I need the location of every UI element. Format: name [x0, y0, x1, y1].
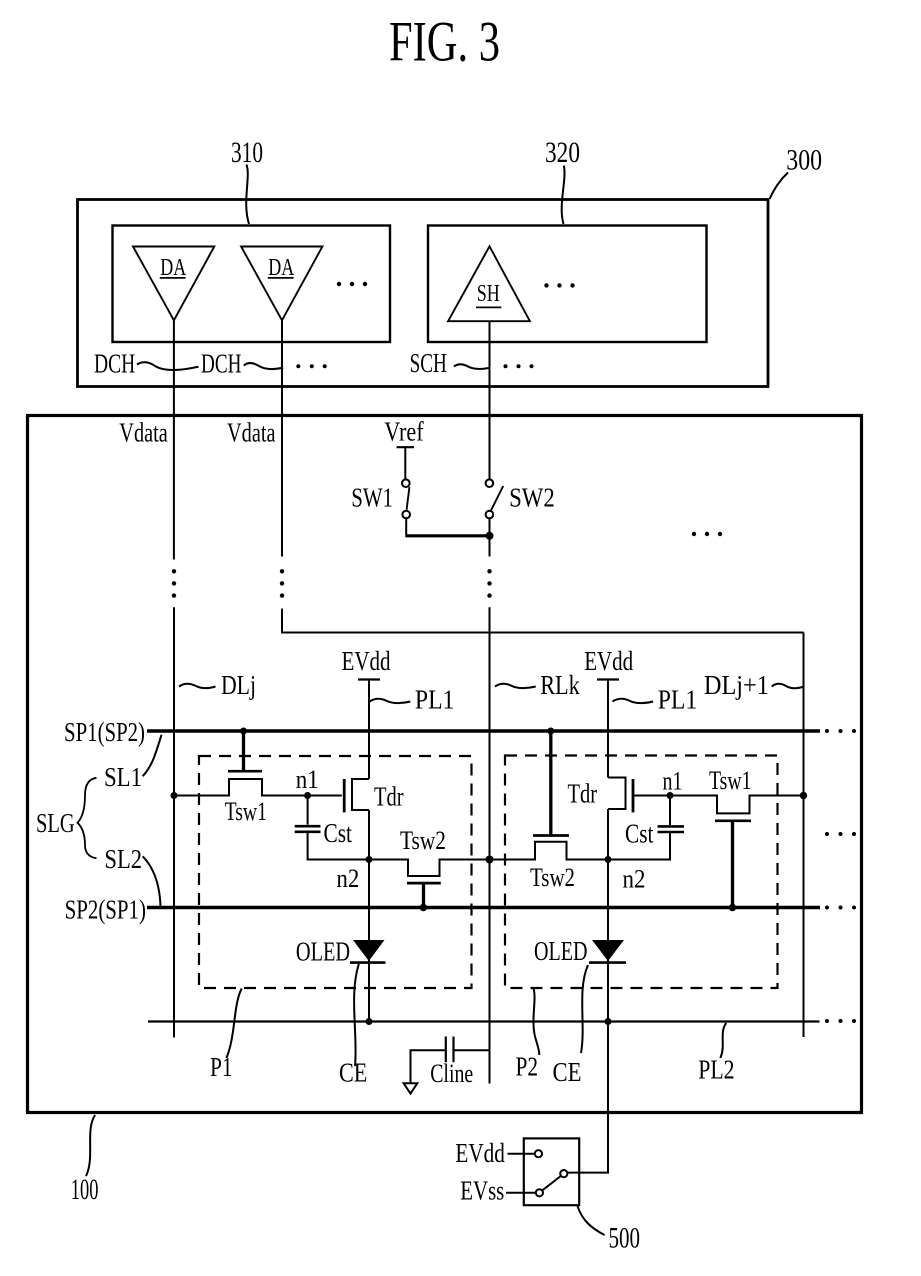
- svg-text:CE: CE: [339, 1057, 367, 1088]
- ground symbol: [404, 1083, 418, 1093]
- svg-text:SL2: SL2: [104, 843, 142, 874]
- svg-text:EVdd: EVdd: [455, 1137, 505, 1168]
- svg-text:Cline: Cline: [430, 1059, 473, 1088]
- svg-text:300: 300: [786, 145, 822, 177]
- svg-text:EVdd: EVdd: [584, 645, 633, 676]
- scan line SP1: [147, 729, 820, 733]
- label 320 with leader: [545, 137, 580, 224]
- svg-text:DA: DA: [160, 254, 186, 281]
- DA converter block 310 box: [113, 226, 391, 343]
- label CE left with leader: [339, 964, 367, 1088]
- svg-text:SP2(SP1): SP2(SP1): [65, 894, 146, 925]
- wire SW junction down: [489, 518, 491, 556]
- Vref terminal: [384, 415, 424, 479]
- svg-text:FIG. 3: FIG. 3: [389, 11, 500, 74]
- vertical ellipsis on Vdata line 1: [172, 569, 176, 598]
- wire PL1 right lower: [607, 809, 609, 1022]
- junction dot PL1 right on CE rail: [605, 1018, 612, 1025]
- wire RLk column: [489, 607, 491, 1083]
- junction dot SW output: [486, 532, 494, 540]
- svg-text:100: 100: [71, 1174, 99, 1206]
- cathode electrode CE rail: [148, 1020, 820, 1022]
- vertical ellipsis on Vdata line 2: [280, 569, 284, 598]
- svg-text:Tdr: Tdr: [374, 781, 404, 812]
- driver block 300 outer box: [78, 200, 769, 387]
- SH amplifier symbol: [448, 246, 530, 321]
- svg-text:RLk: RLk: [540, 669, 580, 700]
- OLED right: [534, 935, 626, 966]
- svg-text:n2: n2: [336, 863, 359, 893]
- svg-text:Vref: Vref: [384, 415, 424, 446]
- label SL1 with leader: [104, 735, 162, 792]
- node n1 left: [296, 764, 319, 799]
- scan line SP2: [147, 906, 820, 910]
- node n2 right: [605, 856, 646, 894]
- junction dot Tsw2 right gate on SP1: [547, 728, 554, 735]
- label SCH with tilde: [410, 347, 489, 378]
- label DCH 1 with tilde: [94, 347, 199, 378]
- transistor Tsw1 right gate: [715, 821, 751, 908]
- svg-text:P2: P2: [516, 1051, 539, 1082]
- label PL2 with leader: [698, 1023, 734, 1085]
- svg-text:n2: n2: [623, 864, 646, 894]
- display panel 100 box: [28, 416, 862, 1113]
- svg-text:EVss: EVss: [460, 1174, 504, 1205]
- svg-text:320: 320: [545, 137, 580, 169]
- label P2 with leader: [516, 989, 540, 1082]
- svg-text:Vdata: Vdata: [119, 416, 168, 447]
- svg-text:Cst: Cst: [324, 817, 353, 848]
- svg-text:Tsw2: Tsw2: [530, 862, 575, 892]
- wire DLj+1 column: [803, 633, 805, 1038]
- wire PL1 left lower: [368, 810, 370, 1022]
- DA amplifier 1 symbol: [133, 247, 214, 321]
- ellipsis dots middle right: [825, 832, 856, 836]
- label 100 with leader: [71, 1115, 99, 1206]
- junction dot Tsw1 right gate on SP2: [729, 904, 736, 911]
- svg-text:SCH: SCH: [410, 347, 447, 378]
- label PL1 right with tilde: [613, 684, 698, 715]
- svg-text:n1: n1: [296, 764, 319, 794]
- EVdd terminal right: [584, 645, 633, 680]
- pixel P2 dashed box: [505, 756, 778, 989]
- transistor Tsw1 left gate: [228, 731, 262, 771]
- SH block 320 box: [428, 226, 707, 343]
- transistor Tsw2 right gate: [533, 731, 569, 836]
- wire DA1 output down: [173, 320, 175, 559]
- ellipsis dots in DA block: [337, 282, 367, 286]
- wire Tdr right gate to n1: [633, 795, 670, 797]
- supply switch 500 box: [524, 1138, 579, 1205]
- svg-text:PL1: PL1: [415, 684, 455, 715]
- svg-text:n1: n1: [663, 766, 683, 796]
- svg-text:SL1: SL1: [104, 761, 142, 792]
- svg-text:DCH: DCH: [94, 347, 135, 378]
- svg-text:EVdd: EVdd: [342, 645, 391, 676]
- label 500 with leader: [578, 1206, 641, 1255]
- svg-text:OLED: OLED: [296, 936, 350, 967]
- junction dot PL1 left on CE rail: [366, 1018, 373, 1025]
- wire horizontal routing to DLj+1: [282, 632, 804, 634]
- junction dot DLj Tsw1 source: [171, 792, 178, 799]
- svg-text:310: 310: [231, 137, 263, 169]
- node n1 right: [663, 766, 683, 800]
- label DLj+1 with tilde: [704, 669, 804, 700]
- ellipsis dots SP1 right: [825, 729, 856, 733]
- junction dot Tsw2 gate on SP2: [420, 904, 427, 911]
- ellipsis dots SCH row: [504, 364, 534, 368]
- DA amplifier 2 symbol: [241, 247, 322, 321]
- svg-text:Vdata: Vdata: [227, 416, 276, 447]
- ellipsis dots SP2 right: [825, 906, 856, 910]
- svg-text:SW1: SW1: [351, 481, 393, 512]
- ellipsis dots mid row: [692, 532, 722, 536]
- svg-text:Tsw1: Tsw1: [709, 765, 752, 795]
- wire DLj column: [173, 607, 175, 1037]
- svg-text:OLED: OLED: [534, 935, 588, 966]
- capacitor Cline: [411, 1037, 490, 1088]
- pixel P1 dashed box: [199, 756, 472, 988]
- transistor Tsw1 left channel: [174, 779, 342, 796]
- brace SLG: [78, 778, 97, 859]
- svg-text:SW2: SW2: [509, 481, 555, 512]
- label 300 with leader: [770, 145, 823, 199]
- svg-text:500: 500: [609, 1223, 641, 1255]
- svg-text:DLj: DLj: [221, 669, 256, 700]
- wire PL1 right to supply switch: [568, 1022, 609, 1173]
- junction dot Tsw2 drain on RLk: [486, 856, 494, 864]
- svg-text:DCH: DCH: [201, 347, 241, 378]
- svg-text:PL1: PL1: [658, 684, 698, 715]
- transistor Tsw2 right channel: [490, 842, 609, 860]
- label PL1 left with tilde: [370, 684, 455, 715]
- transistor Tdr right: [568, 778, 634, 813]
- wire SW1 to junction: [405, 518, 407, 534]
- svg-text:SH: SH: [477, 281, 500, 307]
- OLED left: [296, 936, 386, 967]
- wire SH output down: [489, 321, 491, 479]
- capacitor Cst left: [295, 796, 369, 860]
- EVss terminal of switch 500: [460, 1174, 543, 1205]
- switch SW2: [486, 479, 555, 518]
- svg-text:Tdr: Tdr: [568, 778, 598, 809]
- label CE right with leader: [553, 965, 589, 1087]
- label DLj with tilde: [179, 669, 256, 700]
- ellipsis dots CE rail right: [825, 1019, 856, 1023]
- capacitor Cst right: [608, 796, 684, 860]
- label DCH 2 with tilde: [201, 347, 283, 378]
- wire DA2 output down: [281, 320, 283, 556]
- transistor Tsw2 left gate: [407, 883, 441, 907]
- svg-text:SP1(SP2): SP1(SP2): [64, 716, 145, 747]
- wire PL1 right upper: [607, 680, 609, 778]
- ellipsis dots DCH row: [296, 364, 326, 368]
- junction dot Tsw1 gate on SP1: [240, 728, 247, 735]
- svg-text:Tsw2: Tsw2: [400, 825, 446, 855]
- vertical ellipsis on RLk line: [487, 569, 491, 598]
- transistor Tsw2 left channel: [369, 860, 490, 877]
- label SL2 with leader: [104, 843, 160, 907]
- svg-text:Tsw1: Tsw1: [225, 796, 267, 826]
- transistor Tdr left: [344, 779, 403, 812]
- svg-text:CE: CE: [553, 1056, 582, 1087]
- wire PL1 left upper: [368, 680, 370, 780]
- transistor Tsw1 right channel: [670, 796, 804, 814]
- EVdd terminal of switch 500: [455, 1137, 542, 1168]
- thick wire SW1/SW2 junction: [405, 534, 489, 537]
- junction dot Tsw1 right drain on DLj+1: [800, 792, 807, 799]
- svg-text:P1: P1: [210, 1051, 233, 1082]
- svg-text:DLj+1: DLj+1: [704, 669, 769, 700]
- svg-text:Cst: Cst: [625, 818, 654, 849]
- ellipsis dots in SH block: [544, 283, 574, 287]
- label P1 with leader: [210, 989, 242, 1083]
- svg-text:DA: DA: [268, 254, 294, 281]
- EVdd terminal left: [342, 645, 391, 680]
- svg-text:SLG: SLG: [36, 808, 75, 838]
- switch SW1: [351, 479, 410, 518]
- switch 500 pole and blade: [542, 1170, 567, 1190]
- label RLk with tilde: [495, 669, 580, 700]
- node n2 left: [336, 856, 372, 893]
- svg-text:PL2: PL2: [698, 1054, 734, 1085]
- wire Vdata2 lower segment: [281, 609, 283, 634]
- label 310 with leader: [231, 137, 263, 224]
